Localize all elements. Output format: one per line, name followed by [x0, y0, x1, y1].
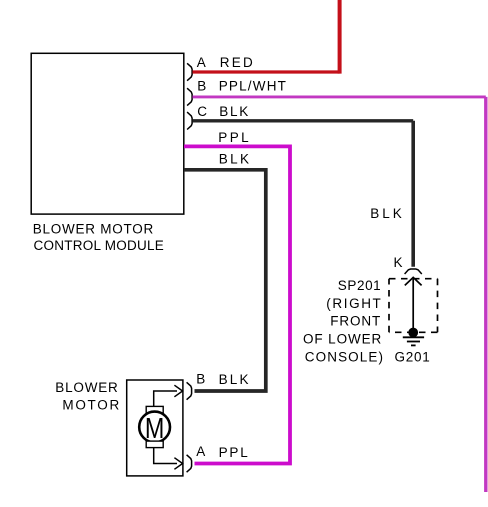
blower motor box: [127, 380, 183, 476]
label SP201 (RIGHT FRONT OF LOWER CONSOLE): [303, 278, 384, 364]
wire BLK: module to blower motor pin B: [184, 170, 266, 391]
svg-text:SP201: SP201: [338, 278, 382, 293]
motor male pin arrow (bottom, A): [174, 458, 182, 470]
motor internal wire (bottom): [154, 448, 177, 464]
svg-text:A: A: [197, 55, 206, 70]
svg-text:BLOWER MOTOR: BLOWER MOTOR: [33, 222, 154, 237]
svg-text:FRONT: FRONT: [330, 314, 381, 329]
ground node junction dot: [408, 328, 418, 338]
pin C connector (module): [187, 112, 192, 129]
svg-text:PPL: PPL: [218, 130, 251, 145]
svg-text:PPL/WHT: PPL/WHT: [219, 79, 287, 94]
svg-text:CONSOLE): CONSOLE): [305, 349, 384, 364]
motor male pin arrow (top, B): [174, 385, 182, 397]
svg-text:BLK: BLK: [219, 104, 250, 119]
pin A connector (module): [187, 63, 192, 80]
svg-text:CONTROL MODULE: CONTROL MODULE: [34, 238, 165, 253]
motor brush block (bottom): [146, 441, 163, 448]
motor internal wire (top): [154, 391, 177, 406]
label: BLOWER MOTOR: [55, 380, 121, 412]
svg-text:G201: G201: [395, 349, 431, 364]
wire PPL/WHT: pin B to right edge, down to bottom: [193, 97, 486, 492]
svg-text:A: A: [196, 444, 205, 459]
motor pin A connector (female): [187, 455, 192, 472]
motor pin B connector (female): [187, 382, 192, 399]
splice SP201 dashed box: [389, 279, 438, 333]
motor brush block (top): [146, 406, 163, 413]
svg-text:BLK: BLK: [219, 372, 251, 387]
arrow from ground node up to pin K: [405, 277, 422, 332]
svg-text:MOTOR: MOTOR: [62, 397, 121, 412]
svg-text:BLK: BLK: [219, 151, 252, 166]
motor circle M: [139, 412, 170, 445]
svg-text:C: C: [197, 104, 207, 119]
label: BLOWER MOTOR CONTROL MODULE: [33, 222, 164, 254]
svg-text:BLK: BLK: [370, 206, 405, 221]
wire RED: pin A to top edge: [193, 0, 340, 74]
svg-text:M: M: [145, 412, 164, 445]
blower motor control module box U1: [31, 53, 184, 214]
wire PPL: module to blower motor pin A: [184, 146, 290, 463]
svg-text:(RIGHT: (RIGHT: [326, 296, 382, 311]
wire BLK: pin C right then down to splice K: [193, 121, 414, 267]
svg-text:K: K: [394, 255, 403, 270]
svg-text:BLOWER: BLOWER: [55, 380, 118, 395]
svg-text:B: B: [196, 371, 205, 386]
svg-text:RED: RED: [220, 55, 255, 70]
pin B connector (module): [187, 88, 192, 105]
ground symbol G201: [403, 337, 424, 345]
svg-text:OF LOWER: OF LOWER: [303, 332, 382, 347]
svg-text:PPL: PPL: [219, 445, 250, 460]
pin K connector (facing down at splice): [405, 269, 422, 274]
svg-text:B: B: [197, 79, 206, 94]
